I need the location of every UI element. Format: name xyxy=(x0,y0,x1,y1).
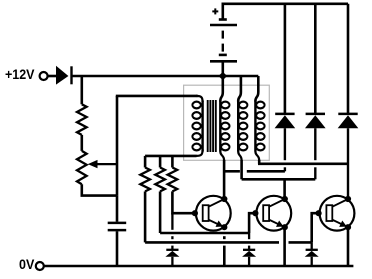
transformer T1 primary winding xyxy=(196,96,203,102)
wire winding A bottom to Q1 collector xyxy=(223,160,226,197)
resistor R4 xyxy=(168,168,178,192)
wire xyxy=(48,75,56,78)
battery + label xyxy=(212,10,218,12)
wire net C link L1 xyxy=(258,163,348,166)
wire battery positive lead xyxy=(223,4,348,19)
diode D4 with leads (Q1 base clamp) xyxy=(171,213,173,230)
wire winding A top drop xyxy=(220,76,223,102)
wire capacitor to 0V xyxy=(116,231,119,266)
wire node A vertical (wiper/feedback) xyxy=(116,96,119,196)
wire rail to winding B and C tops xyxy=(223,75,258,78)
resistor R1 xyxy=(77,104,87,135)
wire winding C bottom xyxy=(258,160,261,164)
transistor Q1 xyxy=(196,196,231,231)
wire winding B top drop xyxy=(238,76,241,102)
transformer T1 secondary winding C xyxy=(254,101,256,152)
wire base line B2 (R2 to Q3 base, gap hop over Q2 emitter) xyxy=(145,241,279,244)
transistor Q2 xyxy=(256,196,291,231)
svg-text:0V: 0V xyxy=(19,256,35,272)
diode D7 (series input diode) xyxy=(56,66,68,85)
wire R3 down xyxy=(159,191,162,233)
diode D3 with leads xyxy=(347,4,350,114)
wire Q3 emitter to 0V xyxy=(347,227,350,266)
wire Q2 collector drop xyxy=(283,179,286,196)
transistor Q3 xyxy=(320,196,355,231)
wire Q2 emitter to 0V xyxy=(283,227,286,266)
terminal +12V xyxy=(40,72,48,80)
diode D6 with leads (Q3 base clamp) xyxy=(311,242,313,249)
wire R2 down xyxy=(144,191,147,242)
wire node A to capacitor xyxy=(116,196,119,222)
wire Q1 emitter to 0V (hops base lines) xyxy=(223,227,226,230)
wire resistor feed line from primary bottom xyxy=(145,155,196,158)
wire Q3 base riser xyxy=(312,213,318,242)
capacitor C1 xyxy=(108,222,127,225)
diode D2 with leads xyxy=(314,4,317,114)
node junction battery/+12V rail xyxy=(218,72,227,80)
wire R3 top stub xyxy=(159,156,162,168)
diode D1 with leads xyxy=(284,4,287,114)
wire R4 top stub xyxy=(171,156,174,168)
transformer T1 outline box xyxy=(184,85,270,160)
svg-text:+12V: +12V xyxy=(5,66,35,82)
terminal 0V xyxy=(36,262,44,270)
wire winding B bottom xyxy=(240,160,243,179)
wire R2 top stub xyxy=(144,156,147,168)
wire R1 top stub xyxy=(81,76,84,104)
wire net B link L3 xyxy=(242,178,316,181)
resistor R2 xyxy=(140,168,150,192)
wire winding C top drop xyxy=(255,76,258,102)
wire base line B1 (R3 to Q2 base) xyxy=(160,232,249,235)
transformer T1 secondary winding B xyxy=(237,101,239,152)
wire Q2 base riser xyxy=(249,213,255,233)
wire +12V rail to battery junction xyxy=(73,75,223,78)
wire battery negative lead xyxy=(222,61,225,76)
wire 0V rail xyxy=(44,265,353,268)
transformer T1 secondary winding A xyxy=(219,101,221,152)
wire primary top lead xyxy=(116,95,198,98)
wire R1 to VR1 xyxy=(81,135,84,151)
transformer T1 core xyxy=(207,100,209,152)
battery B1 xyxy=(219,18,227,21)
diode D5 with leads (Q2 base clamp) xyxy=(248,233,250,239)
wire VR1 bottom xyxy=(82,184,117,195)
resistor R3 xyxy=(155,168,165,192)
potentiometer VR1 xyxy=(77,151,87,184)
wire R4 to Q1 base xyxy=(172,191,194,213)
wire net A link L2 (gap hop over winding B lead) xyxy=(224,170,240,173)
